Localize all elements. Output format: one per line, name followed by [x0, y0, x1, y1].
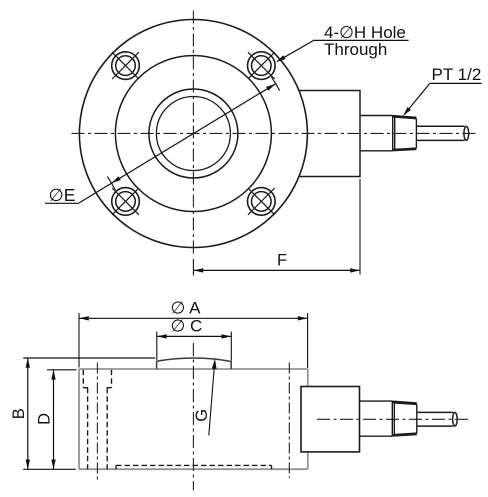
dimension D extension line: [47, 369, 77, 371]
side view: connector axis centerline: [317, 418, 469, 420]
svg-text:D: D: [35, 413, 53, 425]
side view: vertical centerline: [192, 343, 194, 491]
svg-text:PT 1/2: PT 1/2: [432, 65, 482, 84]
bolt hole top-left: [112, 52, 140, 80]
svg-text:∅ C: ∅ C: [171, 316, 203, 335]
dimension OA extension lines: [79, 313, 308, 368]
dimension D line with arrows: [51, 370, 55, 470]
bolt hole top-right: [247, 52, 275, 80]
side view: load button cap: [157, 358, 232, 369]
top view: horizontal centerline: [72, 132, 478, 134]
side view: cable: [417, 412, 457, 426]
side view: connector block: [301, 387, 360, 452]
leader line for 4-OH Hole callout: [275, 40, 409, 64]
top view: center bore inner circle: [156, 97, 230, 171]
bolt hole bottom-left: [112, 188, 140, 216]
top view: center bore outer circle: [149, 89, 238, 178]
dimension B line with arrows: [26, 358, 30, 469]
arrowheads of OE dimension: [110, 176, 121, 185]
dimension OC line with arrows: [157, 334, 232, 338]
side view: PT thread fitting: [392, 401, 417, 436]
bolt hole bottom-right: [247, 188, 275, 216]
side view: counterbore hidden lines: [83, 370, 111, 469]
top view: boss circle: [115, 56, 271, 212]
svg-text:∅ A: ∅ A: [171, 298, 202, 317]
leader line for PT 1/2 callout: [401, 83, 481, 117]
leader line for G: [209, 359, 218, 436]
svg-text:B: B: [10, 408, 28, 419]
top view: flange outer circle: [79, 20, 307, 248]
dimension B extension lines: [23, 358, 155, 469]
svg-text:Through: Through: [324, 40, 387, 59]
label 4-OH Hole Through: [324, 23, 406, 59]
side view: right bolt hole centerline: [288, 363, 290, 479]
label OE with underline: [45, 185, 79, 205]
top view: cable: [416, 126, 468, 140]
top view: vertical centerline: [192, 11, 194, 258]
top view: connector block: [299, 91, 361, 177]
dimension line for bolt-circle diameter OE: [79, 77, 280, 203]
side view: bottom recess hidden line: [116, 465, 272, 469]
svg-text:∅E: ∅E: [49, 185, 76, 205]
top view: PT thread fitting: [393, 116, 417, 151]
svg-text:F: F: [277, 252, 287, 270]
side view: body outline: [79, 369, 308, 469]
svg-text:G: G: [193, 409, 211, 422]
dimension OC extension lines: [157, 332, 232, 361]
side view: connector neck: [360, 401, 393, 436]
top view: connector neck: [360, 116, 393, 151]
side view: left bolt hole centerline: [96, 363, 98, 481]
dimension F extension line: [359, 179, 361, 275]
dimension F line with arrows: [193, 259, 360, 276]
dimension OA line with arrows: [79, 316, 308, 320]
